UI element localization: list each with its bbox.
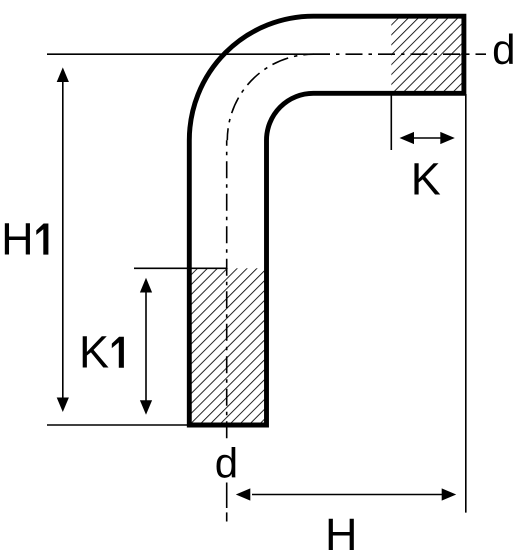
svg-text:K: K [411, 154, 441, 205]
svg-text:H: H [1, 214, 34, 265]
svg-text:d: d [492, 26, 515, 73]
svg-text:d: d [215, 439, 238, 486]
svg-text:K: K [79, 327, 109, 378]
svg-text:H: H [325, 509, 358, 553]
